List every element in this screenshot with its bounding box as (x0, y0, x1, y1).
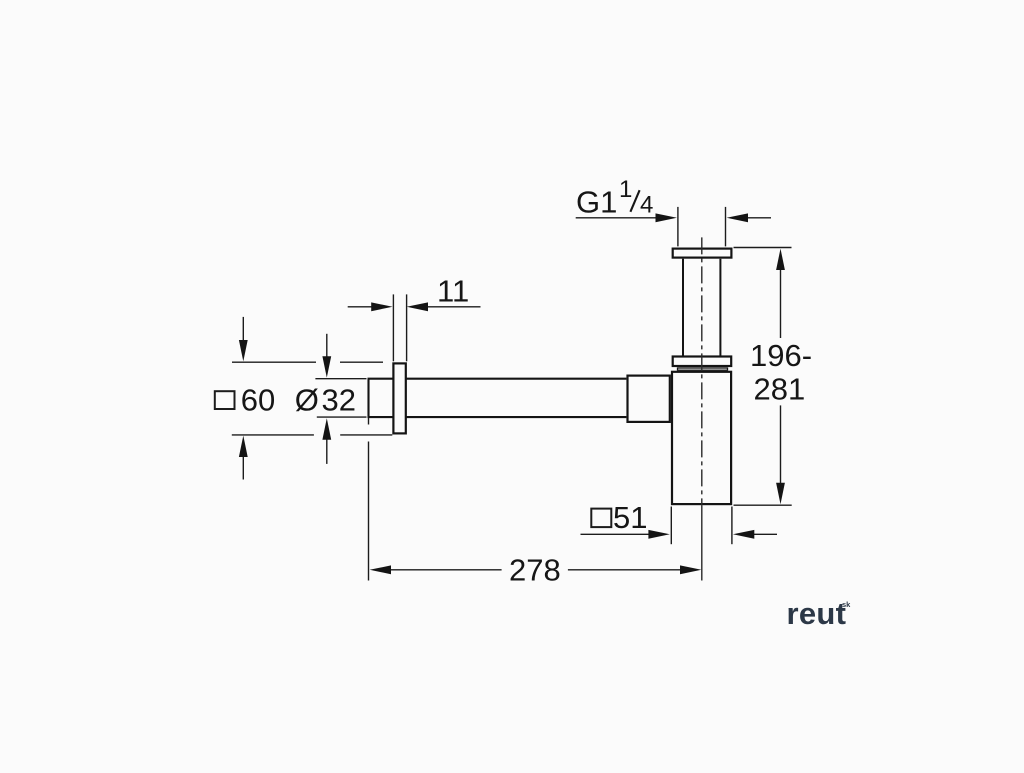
dimension 11 lines (348, 306, 481, 308)
dimension dia32 arrows (322, 356, 331, 440)
dimension 196-281 lines (734, 248, 792, 506)
centerline (701, 237, 703, 580)
dimension square51 arrows (648, 530, 754, 539)
dimension 196-281 arrows (776, 249, 785, 505)
svg-text:32: 32 (322, 382, 356, 417)
svg-text:sk: sk (842, 600, 851, 609)
dimension G1 1/4 lines (576, 207, 771, 247)
vertical pipe (683, 259, 720, 356)
svg-text:G1: G1 (576, 185, 617, 220)
svg-text:4: 4 (640, 192, 653, 219)
dimension square51 square symbol (591, 509, 611, 527)
svg-text:Ø: Ø (295, 382, 319, 417)
dimension square60 square symbol (215, 391, 235, 409)
top flange (673, 249, 732, 258)
dimension 278 arrows (370, 565, 702, 574)
washer (678, 368, 728, 370)
nut (673, 357, 732, 367)
svg-text:1: 1 (619, 176, 632, 203)
svg-text:51: 51 (613, 500, 647, 535)
dimension 11 extension lines (393, 294, 406, 361)
dimension square60 arrows (239, 340, 248, 457)
svg-text:281: 281 (754, 372, 806, 407)
wall flange (393, 363, 405, 433)
dimension 278 lines (369, 418, 682, 581)
svg-text:196-: 196- (750, 338, 812, 373)
svg-text:reut: reut (787, 596, 847, 631)
svg-text:60: 60 (241, 382, 275, 417)
dimension G1 1/4 arrows (656, 213, 749, 222)
dimension square60 lines (232, 317, 392, 480)
svg-text:278: 278 (509, 553, 561, 588)
body cup (672, 372, 731, 504)
horizontal pipe (368, 378, 627, 417)
svg-text:11: 11 (437, 274, 469, 309)
outlet box (628, 376, 670, 422)
dimension square51 lines (581, 507, 778, 545)
dimension 11 arrows (371, 302, 428, 311)
dimension dia32 lines (315, 334, 366, 464)
